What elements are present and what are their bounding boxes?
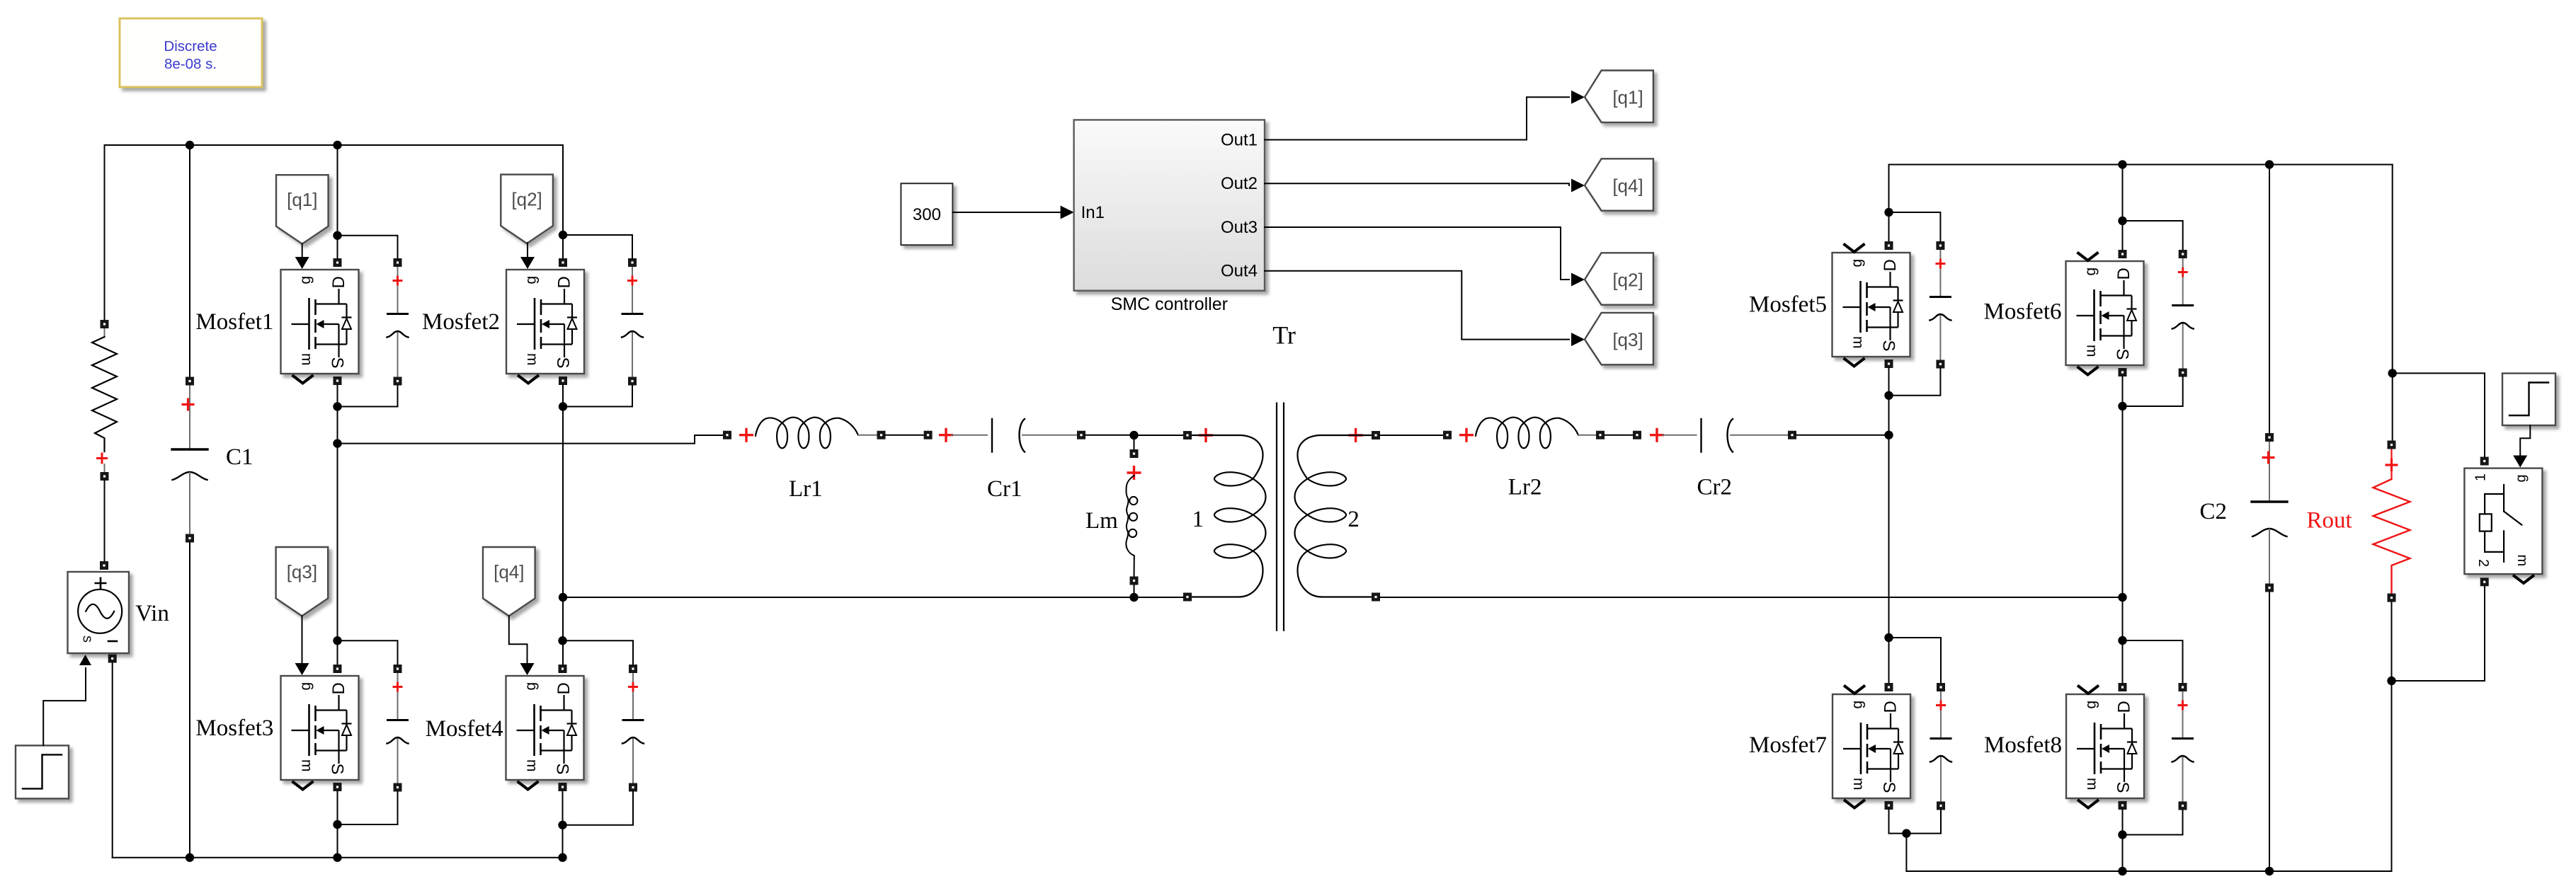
from tag [q1] (276, 175, 329, 243)
wire Mosfet6 snubber feed (2123, 221, 2183, 250)
junction Mosfet7 snubber tap (1884, 633, 1893, 642)
resistor Rin (source series) (92, 320, 117, 481)
junction Mosfet8 leg bottom (2118, 867, 2126, 875)
svg-text:g: g (2083, 701, 2099, 709)
wire Mosfet4 snubber feed (563, 640, 634, 665)
svg-text:Cr1: Cr1 (987, 476, 1022, 502)
junction Mosfet5 snubber tap (1884, 208, 1893, 217)
snubber capacitor of Mosfet4 (622, 665, 644, 792)
svg-text:D: D (329, 682, 348, 694)
wire Out2 to [q4] (1265, 183, 1569, 185)
junction node A (Lm top) (1129, 431, 1138, 439)
wire q3 to Mosfet3 gate (302, 616, 303, 664)
junction Mosfet3 snubber tap (333, 636, 341, 645)
svg-text:[q4]: [q4] (1612, 176, 1643, 197)
port Mosfet5 S (1885, 360, 1893, 368)
wire Mosfet8 source leg (2122, 810, 2124, 871)
svg-text:g: g (2082, 268, 2099, 276)
snubber capacitor of Mosfet8 (2172, 683, 2194, 810)
arrowhead breaker g (2513, 456, 2527, 468)
junction Mosfet3 source (333, 820, 341, 829)
svg-text:Mosfet4: Mosfet4 (426, 716, 503, 742)
svg-text:s: s (80, 636, 96, 643)
transistor Mosfet8 (2066, 686, 2144, 808)
svg-text:g: g (1850, 701, 1866, 709)
wire top bus right (1889, 164, 2393, 166)
wire rail B (primary return) (563, 597, 1183, 598)
junction Mosfet4 snubber tap (558, 636, 566, 645)
wire Rout bottom (2391, 602, 2393, 871)
voltage source Vin (68, 561, 130, 663)
junction Mosfet6 source (2118, 402, 2126, 410)
junction Mosfet2 snubber tap (559, 231, 567, 239)
transistor Mosfet4 (506, 676, 584, 790)
junction Mosfet3 leg bottom (333, 853, 341, 862)
transformer Tr primary winding (1183, 428, 1266, 602)
wire step to Vin s input (43, 668, 86, 745)
wire q1 to Mosfet1 gate (302, 244, 303, 258)
wire Mosfet5 source leg (1888, 368, 1890, 683)
wire Cr1 to node A (1085, 435, 1130, 436)
wire Mosfet4 source leg (562, 791, 564, 858)
wire Out3 to [q2] (1265, 227, 1569, 280)
svg-text:D: D (555, 276, 574, 288)
svg-text:8e-08 s.: 8e-08 s. (164, 56, 217, 72)
goto tag [q3] (1585, 313, 1653, 364)
junction breaker tap top (2388, 369, 2397, 377)
svg-text:g: g (297, 276, 314, 284)
wire resistor to Vin (104, 481, 106, 561)
wire step to breaker g (2520, 425, 2530, 456)
svg-text:S: S (553, 764, 572, 775)
transistor Mosfet3 (281, 676, 359, 790)
wire C1 top (189, 145, 190, 376)
svg-text:1: 1 (2473, 473, 2489, 481)
snubber capacitor of Mosfet2 (622, 258, 643, 386)
wire Mosfet5 drain (1888, 165, 1890, 242)
wire bottom bus (113, 857, 563, 858)
port Mosfet1 D (334, 258, 342, 267)
svg-text:1: 1 (1192, 507, 1204, 532)
from tag [q3] (276, 547, 329, 616)
port Mosfet6 D (2119, 250, 2127, 258)
svg-text:S: S (2113, 349, 2132, 360)
svg-text:D: D (2115, 701, 2134, 713)
svg-text:S: S (553, 357, 572, 369)
wire Out4 to [q3] (1265, 271, 1569, 340)
svg-text:[q3]: [q3] (1612, 329, 1643, 350)
annotation block 'Discrete 8e-08 s.' (120, 18, 262, 87)
port Mosfet2 D (559, 258, 567, 267)
svg-text:[q1]: [q1] (287, 189, 317, 210)
svg-text:Mosfet3: Mosfet3 (195, 715, 273, 741)
wire Mosfet3 source leg (337, 791, 338, 858)
wire top bus (Vin+ rail) (105, 144, 564, 146)
wire secondary to Lr2 (1380, 435, 1443, 436)
wire Mosfet1 source leg (337, 385, 338, 665)
transistor Mosfet2 (506, 270, 584, 384)
snubber capacitor of Mosfet5 (1930, 241, 1951, 369)
wire Vin return (112, 663, 113, 858)
arrowhead q2 gate (520, 257, 535, 269)
wire snubber5 return (1889, 369, 1941, 396)
wire snubber1 return (338, 386, 398, 407)
transistor Mosfet7 (1833, 686, 1910, 808)
svg-text:g: g (523, 276, 540, 284)
wire Lm bottom (1134, 585, 1135, 597)
svg-text:m: m (299, 353, 315, 366)
arrowhead q3 gate (295, 663, 309, 675)
wire Mosfet2 source leg (562, 385, 564, 665)
breaker block (2464, 469, 2542, 583)
capacitor Cr2 (1633, 419, 1796, 452)
capacitor Cr1 (924, 419, 1085, 452)
svg-text:[q1]: [q1] (1612, 87, 1643, 108)
junction C1 bottom (186, 853, 194, 862)
junction Lm bottom node (1129, 593, 1138, 602)
port Mosfet2 S (559, 376, 567, 385)
step source (Vin control) (16, 745, 69, 798)
port Mosfet3 D (334, 665, 342, 673)
svg-text:D: D (2114, 268, 2133, 280)
svg-text:Mosfet1: Mosfet1 (195, 309, 273, 335)
junction Mosfet4 leg bottom (558, 853, 566, 862)
junction Mosfet7 source (1902, 829, 1910, 837)
transformer Tr secondary winding (1295, 428, 1381, 602)
wire Mosfet6 drain (2122, 165, 2124, 251)
svg-text:Mosfet6: Mosfet6 (1984, 299, 2062, 325)
svg-text:S: S (1879, 340, 1898, 352)
from tag [q4] (483, 547, 535, 616)
svg-text:D: D (1881, 259, 1900, 271)
svg-text:Lr1: Lr1 (789, 476, 823, 502)
wire Mosfet3 snubber feed (338, 640, 398, 665)
wire node A to primary (1139, 435, 1184, 436)
svg-text:m: m (1850, 778, 1867, 791)
wire Mosfet8 snubber feed (2123, 640, 2183, 683)
svg-text:Out1: Out1 (1221, 131, 1258, 150)
wire Mosfet1 snubber feed (338, 236, 398, 258)
svg-text:m: m (299, 759, 315, 772)
port breaker 2 (2480, 577, 2489, 586)
arrowhead In1 (1061, 206, 1074, 219)
svg-text:Lm: Lm (1085, 508, 1118, 534)
wire Mosfet1 drain (337, 145, 338, 258)
junction Mosfet4 source (558, 821, 566, 829)
junction C2 bottom (2265, 867, 2274, 875)
svg-text:g: g (523, 682, 539, 691)
junction Mosfet8 source (2118, 830, 2126, 839)
port breaker 1 (2480, 457, 2489, 466)
inductor Lr2 (1443, 418, 1605, 449)
svg-text:m: m (2084, 345, 2100, 357)
svg-text:Tr: Tr (1272, 321, 1296, 350)
svg-text:In1: In1 (1081, 203, 1105, 222)
junction Mosfet8 snubber tap (2118, 636, 2126, 645)
capacitor C1 (172, 377, 207, 543)
wire Mosfet2 drain (562, 145, 564, 258)
wire snubber7 return (1906, 810, 1941, 834)
junction Mosfet6 leg top (2118, 160, 2126, 168)
arrowhead goto q1 (1571, 91, 1585, 104)
capacitor C2 (2252, 433, 2287, 592)
junction Mosfet1 snubber tap (333, 231, 341, 240)
arrowhead into Vin s port (79, 655, 91, 665)
wire C1 bottom (189, 543, 190, 858)
wire Out1 to [q1] (1265, 97, 1569, 139)
junction Cr2 node (1884, 431, 1893, 439)
svg-text:Lr2: Lr2 (1508, 475, 1542, 500)
wire bottom bus right (1906, 870, 2391, 872)
wire Mosfet6 source leg (2122, 376, 2124, 683)
port Mosfet3 S (334, 783, 342, 791)
arrowhead goto q4 (1571, 179, 1585, 192)
snubber capacitor of Mosfet1 (387, 258, 409, 386)
wire C2 bottom (2269, 592, 2270, 872)
wire Cr2 to right bridge (1796, 435, 1889, 436)
svg-text:g: g (2514, 474, 2529, 482)
port Mosfet7 S (1885, 801, 1893, 810)
transistor Mosfet5 (1833, 244, 1910, 367)
wire snubber6 return (2123, 377, 2183, 407)
svg-text:SMC controller: SMC controller (1111, 294, 1228, 314)
junction secondary return node (2118, 593, 2126, 602)
junction Mosfet1 leg top (333, 141, 341, 149)
port Mosfet8 S (2119, 801, 2127, 810)
svg-text:m: m (2084, 778, 2100, 791)
wire snubber2 return (563, 386, 632, 407)
junction Mosfet1 source (333, 402, 341, 410)
arrowhead goto q2 (1571, 273, 1585, 287)
svg-text:Mosfet7: Mosfet7 (1749, 732, 1827, 758)
wire Mosfet7 snubber feed (1889, 638, 1942, 683)
wire to breaker port1 (2393, 373, 2485, 456)
wire Mosfet7 source (1889, 810, 1907, 834)
port Mosfet4 D (559, 665, 567, 673)
inductor Lm (1126, 435, 1141, 585)
junction Mosfet6 snubber tap (2118, 217, 2126, 225)
subsystem SMC controller (1074, 120, 1265, 290)
snubber capacitor of Mosfet3 (387, 665, 409, 792)
svg-text:S: S (1879, 782, 1898, 793)
wire q4 to Mosfet4 gate (509, 616, 528, 664)
svg-text:C2: C2 (2200, 499, 2228, 524)
goto tag [q1] (1585, 71, 1653, 122)
junction rail A out (333, 439, 341, 447)
svg-text:m: m (1850, 336, 1867, 349)
transistor Mosfet1 (281, 270, 359, 384)
wire snubber4 return (563, 792, 634, 825)
snubber capacitor of Mosfet6 (2172, 250, 2194, 377)
resistor Rout (2373, 441, 2410, 602)
junction Mosfet2 source (559, 402, 567, 410)
svg-text:S: S (328, 357, 347, 369)
port Mosfet7 D (1885, 683, 1893, 691)
wire Mosfet7 to bottom bus (1905, 834, 1907, 871)
svg-text:Out2: Out2 (1221, 174, 1258, 193)
svg-text:[q2]: [q2] (511, 189, 542, 210)
svg-text:2: 2 (1347, 507, 1360, 532)
port Mosfet4 S (559, 783, 567, 791)
svg-text:[q3]: [q3] (287, 561, 317, 582)
wire Mosfet2 snubber feed (563, 235, 632, 258)
svg-text:D: D (1881, 701, 1900, 713)
goto tag [q4] (1585, 159, 1653, 210)
svg-text:m: m (2514, 555, 2530, 567)
step source (breaker control) (2502, 374, 2555, 426)
junction C2 top (2265, 160, 2274, 168)
wire 300 to SMC In1 (952, 212, 1061, 213)
goto tag [q2] (1585, 253, 1653, 304)
transformer core (1277, 403, 1284, 631)
svg-text:Mosfet5: Mosfet5 (1749, 292, 1827, 318)
svg-text:Rout: Rout (2307, 508, 2352, 534)
wire Mosfet5 snubber feed (1889, 212, 1941, 241)
wire resistor top feed (104, 145, 106, 320)
snubber capacitor of Mosfet7 (1930, 683, 1951, 810)
wire C2 top (2269, 165, 2270, 434)
wire to breaker port2 (2392, 587, 2485, 681)
svg-text:g: g (297, 682, 314, 691)
svg-text:S: S (328, 764, 347, 775)
svg-text:D: D (554, 682, 574, 694)
svg-text:Vin: Vin (135, 601, 169, 626)
svg-text:C1: C1 (226, 444, 253, 470)
arrowhead q4 gate (520, 663, 535, 675)
port Mosfet5 D (1885, 241, 1893, 250)
junction breaker tap bottom (2387, 677, 2395, 685)
wire Rout top feed (2392, 165, 2393, 441)
svg-text:g: g (1849, 259, 1865, 268)
wire Lr1 to Cr1 (886, 435, 924, 436)
arrowhead q1 gate (295, 257, 309, 269)
svg-text:300: 300 (913, 205, 941, 224)
svg-text:2: 2 (2475, 559, 2491, 567)
svg-text:Mosfet8: Mosfet8 (1984, 732, 2062, 758)
port Mosfet1 S (334, 376, 342, 385)
port Mosfet8 D (2119, 683, 2127, 691)
svg-text:[q2]: [q2] (1612, 270, 1643, 291)
svg-text:[q4]: [q4] (494, 561, 524, 582)
svg-text:S: S (2113, 782, 2132, 793)
svg-text:m: m (524, 353, 540, 366)
wire snubber3 return (338, 792, 398, 825)
wire secondary return (1380, 597, 2123, 598)
wire Lr2 to Cr2 (1605, 435, 1633, 436)
svg-text:Out3: Out3 (1221, 218, 1258, 237)
junction C1 top (186, 141, 194, 149)
wire snubber8 return (2123, 810, 2183, 835)
svg-text:Discrete: Discrete (164, 38, 217, 54)
wire rail A to Lr1 (338, 435, 724, 444)
svg-text:Out4: Out4 (1221, 262, 1258, 281)
junction rail B out (559, 593, 567, 602)
inductor Lr1 (723, 418, 886, 449)
svg-text:Cr2: Cr2 (1697, 475, 1733, 500)
junction Mosfet5 source (1884, 391, 1893, 400)
constant block 300 (901, 183, 952, 245)
port Mosfet6 S (2119, 368, 2127, 376)
transistor Mosfet6 (2066, 253, 2144, 375)
svg-text:Mosfet2: Mosfet2 (422, 309, 500, 335)
from tag [q2] (501, 175, 553, 243)
wire q2 to Mosfet2 gate (527, 243, 528, 258)
svg-text:D: D (329, 276, 348, 288)
arrowhead goto q3 (1571, 333, 1585, 346)
svg-text:m: m (524, 759, 540, 772)
